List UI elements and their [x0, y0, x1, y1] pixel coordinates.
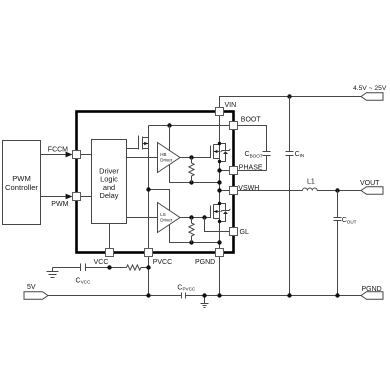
inductor L1	[303, 188, 318, 190]
svg-text:VCC: VCC	[94, 259, 109, 266]
node PGND pin at rail	[217, 293, 221, 297]
pin PWM	[73, 193, 81, 201]
resistor R LS gate	[189, 218, 194, 243]
IC power-stage outline U1 (thick box)	[77, 112, 234, 253]
wire boot FET gate from driver logic	[127, 148, 139, 150]
pin VSWH	[230, 185, 260, 195]
wire switch-node vertical (VIN pin down through FETs to PGND pin)	[219, 112, 221, 249]
node COUT tap	[335, 188, 339, 192]
transistor Q1 high-side MOSFET	[211, 142, 231, 163]
pin PVCC	[145, 249, 173, 266]
pin PGND	[195, 249, 224, 266]
capacitor CIN	[286, 97, 305, 296]
ground (CPVCC)	[201, 296, 209, 308]
pin VIN	[216, 102, 237, 116]
wire LS driver input	[127, 217, 158, 219]
node boot/HB-supply junction	[167, 123, 171, 127]
capacitor COUT	[334, 191, 357, 296]
svg-text:5V: 5V	[27, 284, 36, 291]
wire BOOT net (boot FET drain to BOOT pin and C_BOOT)	[149, 126, 267, 152]
node PVCC filter junction	[146, 265, 150, 269]
svg-text:HB: HB	[160, 152, 166, 157]
op-amp U2 HB driver	[158, 143, 181, 173]
wire VIN top rail to 4.5-25V flag	[220, 97, 362, 108]
svg-text:PGND: PGND	[195, 259, 215, 266]
wire LS driver return stub and line to PGND vertical	[170, 225, 220, 243]
node ground symbol junction	[202, 293, 206, 297]
wire LS driver output to LS gate	[180, 217, 211, 219]
node HB gate resistor top	[189, 155, 193, 159]
node LS return at PGND vertical	[217, 240, 221, 244]
svg-text:Controller: Controller	[5, 183, 38, 192]
capacitor CPVCC	[177, 284, 196, 298]
wire L1 to VOUT flag	[317, 190, 361, 192]
svg-text:L1: L1	[307, 178, 315, 185]
transistor Q2 low-side MOSFET	[211, 202, 231, 223]
pin GL	[230, 228, 249, 237]
wire GL sense to GL pin	[205, 218, 234, 232]
wire VCC pin to driver logic box	[109, 224, 111, 249]
wire VCC filter line	[53, 267, 149, 269]
svg-text:PGND: PGND	[362, 286, 382, 293]
svg-text:4.5V ~ 25V: 4.5V ~ 25V	[353, 85, 387, 92]
pin FCCM	[73, 151, 81, 159]
node LS resistor bottom	[189, 240, 193, 244]
wire HB driver input	[127, 157, 158, 159]
svg-text:PHASE: PHASE	[239, 165, 263, 172]
ground (CVCC)	[47, 268, 59, 278]
resistor R HB gate	[189, 158, 194, 183]
node PHASE junction	[217, 168, 221, 172]
wire HB driver positive supply stub	[169, 126, 171, 151]
flag VOUT	[360, 180, 383, 194]
wire HB driver output to HS gate	[180, 157, 211, 159]
svg-text:VSWH: VSWH	[238, 185, 259, 192]
node VCC filter junction	[107, 265, 111, 269]
flag PGND right	[361, 286, 383, 299]
diode D2 body diode	[220, 204, 226, 222]
capacitor CBOOT	[245, 151, 271, 158]
node VSWH junction	[217, 188, 221, 192]
node HB return at switch node	[217, 180, 221, 184]
wire bottom 5V rail	[48, 295, 361, 297]
capacitor CVCC	[76, 264, 91, 285]
resistor R VCC filter	[127, 265, 141, 270]
node HB resistor bottom	[189, 180, 193, 184]
diode D1 body diode	[220, 144, 226, 162]
wire PGND pin to ground rail	[219, 257, 221, 296]
svg-text:FCCM: FCCM	[48, 147, 68, 154]
svg-text:LS: LS	[160, 212, 166, 217]
wire PHASE pin to switch node and C_BOOT bottom	[220, 156, 267, 171]
node LS supply tap on PVCC rail	[146, 187, 150, 191]
svg-text:VIN: VIN	[225, 102, 237, 109]
svg-text:PWM: PWM	[51, 201, 68, 208]
node PVCC at rail	[146, 293, 150, 297]
op-amp U3 LS driver	[158, 203, 181, 233]
PWM Controller box	[3, 141, 41, 225]
wire VSWH line to L1	[220, 190, 303, 192]
svg-text:Delay: Delay	[100, 191, 119, 200]
wire HB driver return stub and line to switch node	[170, 165, 220, 183]
flag 5V input	[24, 284, 48, 299]
transistor Q3 boot FET	[139, 136, 149, 150]
pin BOOT	[230, 117, 262, 130]
svg-text:Driver: Driver	[160, 218, 173, 223]
wire FCCM (controller to pin, with arrowhead)	[41, 147, 92, 158]
node VIN-CIN junction	[287, 94, 291, 98]
node LS gate resistor top	[189, 215, 193, 219]
node CIN at rail	[287, 293, 291, 297]
node GL tap	[202, 215, 206, 219]
pin PHASE	[230, 165, 263, 175]
svg-text:PVCC: PVCC	[153, 259, 172, 266]
wire PVCC rail (boot FET source down to PVCC pin and ground rail)	[148, 126, 150, 296]
wire PWM (controller to pin, with arrowhead)	[41, 194, 92, 208]
svg-text:PWM: PWM	[12, 174, 31, 183]
flag 4.5V-25V input	[353, 85, 387, 100]
svg-text:GL: GL	[240, 229, 249, 236]
node COUT at rail	[335, 293, 339, 297]
svg-text:BOOT: BOOT	[241, 117, 262, 124]
wire LS driver positive supply from PVCC rail	[149, 190, 170, 211]
svg-text:Driver: Driver	[160, 158, 173, 163]
Driver Logic and Delay box	[92, 140, 127, 224]
svg-text:VOUT: VOUT	[360, 180, 380, 187]
pin VCC	[94, 249, 114, 266]
